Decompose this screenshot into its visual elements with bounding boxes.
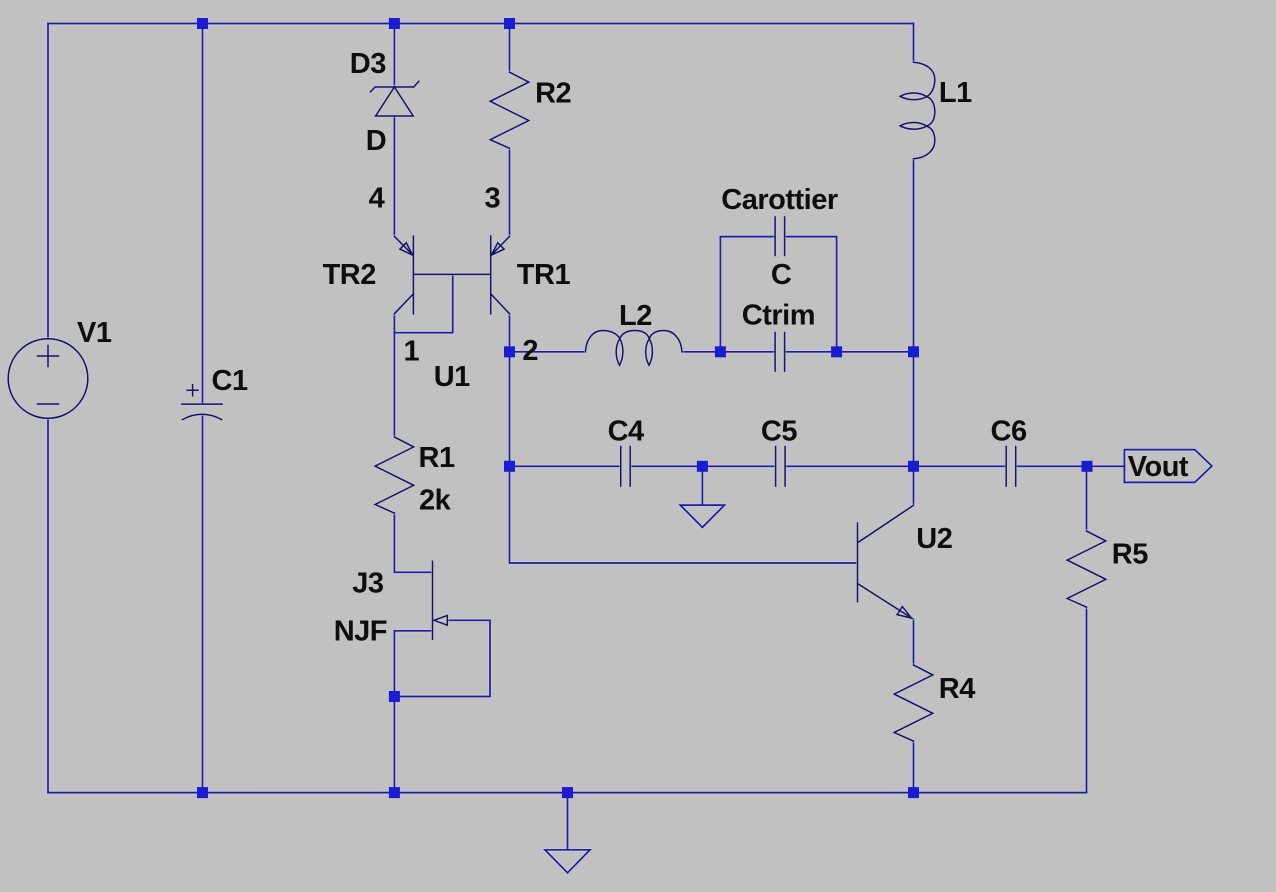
svg-text:R2: R2 (535, 78, 571, 110)
node 2 pin (504, 346, 515, 357)
svg-text:R4: R4 (939, 673, 975, 705)
svg-text:U1: U1 (434, 361, 470, 393)
svg-text:4: 4 (369, 182, 385, 214)
svg-text:Ctrim: Ctrim (742, 300, 815, 332)
node tank left (715, 346, 726, 357)
node C4 left (504, 461, 515, 472)
svg-text:C5: C5 (761, 416, 797, 448)
svg-text:3: 3 (485, 182, 501, 214)
node ground1 (697, 461, 708, 472)
svg-text:C6: C6 (991, 416, 1027, 448)
svg-text:TR1: TR1 (517, 259, 571, 291)
svg-text:NJF: NJF (334, 616, 387, 648)
node top rail R2 (504, 18, 515, 29)
svg-text:L2: L2 (619, 300, 652, 332)
svg-text:D3: D3 (350, 48, 386, 80)
svg-text:C: C (771, 259, 792, 291)
svg-text:1: 1 (404, 336, 420, 368)
node bottom rail R4 (908, 787, 919, 798)
node top rail D3 (389, 18, 400, 29)
svg-text:C4: C4 (608, 416, 644, 448)
node tank column top (908, 346, 919, 357)
node Vout (1082, 461, 1093, 472)
node J3 source (389, 691, 400, 702)
svg-text:R1: R1 (419, 442, 455, 474)
node bottom rail ground2 (562, 787, 573, 798)
svg-text:Carottier: Carottier (721, 184, 838, 216)
svg-text:C1: C1 (212, 365, 248, 397)
svg-text:TR2: TR2 (323, 259, 376, 291)
svg-text:R5: R5 (1112, 538, 1148, 570)
node bottom rail C1 (197, 787, 208, 798)
svg-text:D: D (366, 125, 386, 157)
svg-text:Vout: Vout (1128, 451, 1189, 483)
node bottom rail J3 (389, 787, 400, 798)
node tank column C5 (908, 461, 919, 472)
svg-text:U2: U2 (916, 523, 952, 555)
svg-text:L1: L1 (939, 77, 972, 109)
svg-text:2k: 2k (419, 485, 452, 517)
svg-text:2: 2 (522, 335, 538, 367)
node tank right (831, 346, 842, 357)
node top rail C1 (197, 18, 208, 29)
svg-text:J3: J3 (352, 568, 384, 600)
svg-text:V1: V1 (77, 317, 112, 349)
